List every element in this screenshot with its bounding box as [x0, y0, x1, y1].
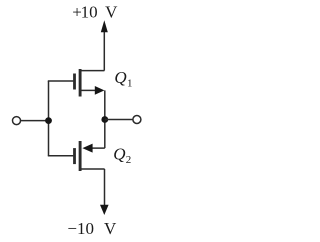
wire: Q2 drain lead to negative rail [81, 168, 105, 170]
+10 V supply arrow [101, 20, 108, 70]
wire: gate bus (vertical, input node) [48, 81, 50, 156]
output terminal [133, 116, 141, 124]
svg-text:+10V: +10V [72, 3, 118, 22]
label Q1 [114, 68, 132, 90]
+10 V supply label [72, 3, 118, 22]
svg-text:−10V: −10V [67, 219, 117, 238]
svg-text:Q2: Q2 [113, 144, 131, 166]
label Q2 [113, 144, 131, 166]
wire: input lead [21, 120, 49, 122]
transistor Q1 (NMOS) [75, 69, 105, 97]
node: gate junction [45, 117, 52, 124]
wire: Q2 gate lead [48, 155, 74, 157]
input terminal [13, 117, 21, 125]
wire: output lead [105, 119, 133, 121]
-10 V supply arrow [100, 169, 109, 215]
svg-text:Q1: Q1 [114, 68, 132, 90]
node: output junction [101, 116, 108, 123]
wire: output rail (Q1 source to Q2 source) [104, 90, 106, 148]
wire: Q1 gate lead [48, 80, 74, 82]
-10 V supply label [67, 219, 117, 238]
transistor Q2 (PMOS) [75, 141, 105, 171]
wire: Q1 drain lead to supply rail [81, 70, 104, 72]
